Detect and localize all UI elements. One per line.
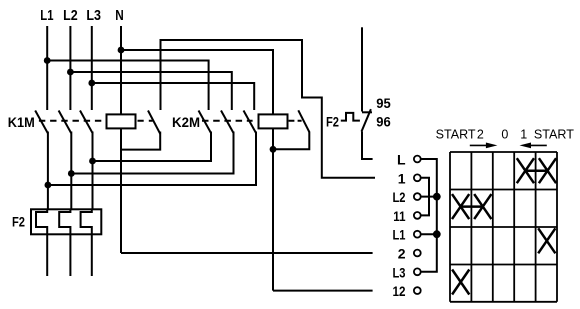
contactor K2M pole 1 blade xyxy=(199,111,212,134)
contact closed mark X row L2/11 position START left xyxy=(452,194,469,219)
svg-text:L3: L3 xyxy=(393,264,406,280)
svg-text:L2: L2 xyxy=(63,8,78,24)
svg-text:N: N xyxy=(115,8,124,24)
cam switch terminal L circle xyxy=(414,156,421,163)
wire K1M pole3 bottom xyxy=(92,132,94,210)
wire K2M coil to terminal 12 xyxy=(273,290,373,292)
contact closed mark X row L2/11 position 2 xyxy=(474,194,491,219)
wire L1 vertical feeder xyxy=(46,26,48,110)
contactor K1M pole 2 blade xyxy=(59,111,72,134)
jumper L-L2-L1-L3 xyxy=(421,159,437,272)
coil K2M xyxy=(259,114,288,128)
contactor K1M linkage dashed line xyxy=(39,120,101,122)
svg-text:2: 2 xyxy=(477,128,484,142)
jumper 1-11 xyxy=(421,178,429,216)
svg-text:K2M: K2M xyxy=(172,114,200,130)
svg-text:START: START xyxy=(534,128,574,142)
svg-text:12: 12 xyxy=(393,283,406,299)
arrow spring return left xyxy=(530,144,547,146)
contact closed mark X row L1/2 position START right xyxy=(538,228,555,253)
svg-text:L2: L2 xyxy=(393,189,406,205)
svg-text:L3: L3 xyxy=(86,8,101,24)
contact closed mark X row L/1 position 1 xyxy=(517,158,534,183)
wire L3 tap to K2M pole3 xyxy=(92,83,254,110)
wire K2M pole2 bottom xyxy=(71,132,233,174)
svg-text:96: 96 xyxy=(376,114,391,129)
svg-text:L1: L1 xyxy=(393,227,406,243)
wire K2M pole1 bottom crossover xyxy=(93,132,212,162)
wire motor lead T2 xyxy=(69,234,71,276)
svg-text:0: 0 xyxy=(501,128,508,142)
junction motor T2 xyxy=(68,170,75,177)
junction motor T1 xyxy=(45,182,52,189)
contactor K2M pole 2 blade xyxy=(221,111,234,134)
cam switch terminal 11 circle xyxy=(414,212,421,219)
svg-text:F2: F2 xyxy=(12,214,25,230)
wire N vertical feeder xyxy=(120,26,122,114)
X pair connecting bar row 1 xyxy=(525,169,547,172)
wire K2M pole3 bottom crossover xyxy=(48,132,256,186)
wire L2 tap to K2M pole2 xyxy=(70,72,231,110)
overload relay F2 trip linkage symbol xyxy=(341,113,360,121)
contactor K1M aux contact blade xyxy=(148,111,160,135)
junction motor T3 xyxy=(89,158,96,165)
wire L1 tap to K2M pole1 xyxy=(47,61,208,111)
coil K1M xyxy=(107,114,136,128)
contactor K1M aux contact bottom wire xyxy=(121,132,160,150)
cam switch terminal 2 circle xyxy=(414,250,421,257)
X pair connecting bar row 2 xyxy=(462,205,482,208)
overload F2 NC contact bottom terminal xyxy=(362,132,373,160)
arrow spring return right xyxy=(470,144,487,146)
junction jumper at L1 xyxy=(433,230,441,238)
contactor K2M pole 3 blade xyxy=(244,111,257,134)
wire K1M pole1 bottom xyxy=(47,132,49,210)
wire motor lead T1 xyxy=(46,234,48,276)
overload F2 heater element L3 xyxy=(81,209,92,234)
overload F2 NC contact top terminal xyxy=(361,27,363,111)
contactor K2M aux contact bottom wire xyxy=(273,132,309,150)
overload F2 NC contact blade xyxy=(362,109,371,131)
junction L1 tap xyxy=(44,57,51,64)
cam switch terminal L3 circle xyxy=(414,268,421,275)
svg-text:11: 11 xyxy=(393,208,405,224)
wire L2 vertical feeder xyxy=(69,26,71,110)
svg-text:95: 95 xyxy=(376,96,391,111)
svg-text:START: START xyxy=(436,128,476,142)
svg-text:1: 1 xyxy=(398,170,406,186)
overload F2 NC contact seat xyxy=(362,111,372,113)
contact closed mark X row L/1 position START right xyxy=(539,158,556,183)
cam switch terminal 12 circle xyxy=(414,287,421,294)
junction K2M coil bottom xyxy=(270,146,277,153)
contact closed mark X row L3/12 position START left xyxy=(452,270,469,295)
svg-text:L: L xyxy=(397,152,406,168)
wire motor lead T3 xyxy=(91,234,93,276)
svg-text:2: 2 xyxy=(398,246,406,262)
contactor K1M pole 3 blade xyxy=(80,111,93,134)
contactor K1M pole 1 blade xyxy=(35,111,48,134)
overload F2 heater element L2 xyxy=(59,209,70,234)
contactor K1M aux contact top wire xyxy=(161,40,376,178)
svg-text:F2: F2 xyxy=(326,114,339,130)
cam switch terminal 1 circle xyxy=(414,174,421,181)
contactor K1M linkage dash coil to aux xyxy=(138,120,153,122)
wire L3 vertical feeder xyxy=(91,26,93,110)
contactor K2M aux contact blade xyxy=(298,110,309,132)
junction L2 tap xyxy=(67,69,74,76)
junction L3 tap xyxy=(88,80,95,87)
wire K1M coil to terminal 2 xyxy=(121,252,373,254)
wire N tap to K2M coil xyxy=(121,50,273,114)
cam switch terminal L1 circle xyxy=(414,231,421,238)
svg-text:1: 1 xyxy=(520,128,527,142)
cam switch terminal L2 circle xyxy=(414,193,421,200)
wire K2M coil bottom xyxy=(272,128,274,290)
svg-text:L1: L1 xyxy=(40,8,53,24)
contactor K2M linkage dash coil to aux xyxy=(289,120,302,122)
contactor K2M linkage dashed line xyxy=(202,120,253,122)
svg-text:K1M: K1M xyxy=(8,114,35,130)
wire K1M pole2 bottom xyxy=(70,132,72,210)
junction N tap xyxy=(118,47,125,54)
overload relay F2 heater box xyxy=(31,209,101,234)
junction jumper at L2 xyxy=(433,193,441,201)
overload F2 heater element L1 xyxy=(36,209,47,234)
cam switch contact table grid xyxy=(450,152,557,302)
wire K1M coil bottom xyxy=(120,128,122,253)
